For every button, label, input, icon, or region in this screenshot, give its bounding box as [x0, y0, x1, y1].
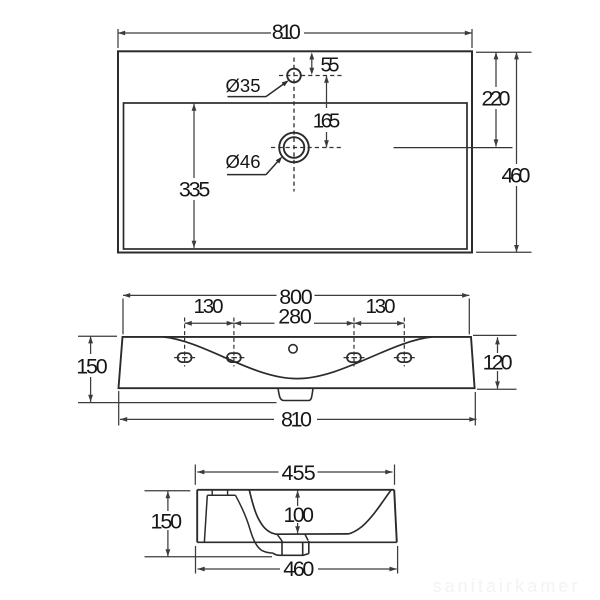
svg-text:455: 455 — [281, 461, 315, 485]
svg-text:130: 130 — [366, 295, 396, 318]
svg-text:120: 120 — [483, 350, 513, 374]
svg-text:150: 150 — [151, 509, 183, 533]
svg-text:150: 150 — [76, 354, 108, 378]
svg-text:280: 280 — [278, 305, 312, 329]
svg-text:810: 810 — [281, 407, 312, 431]
svg-text:55: 55 — [321, 55, 340, 77]
svg-text:335: 335 — [179, 178, 211, 202]
svg-text:130: 130 — [194, 295, 224, 318]
svg-text:460: 460 — [283, 557, 314, 581]
svg-text:165: 165 — [313, 110, 341, 133]
svg-text:Ø46: Ø46 — [226, 151, 261, 172]
svg-text:Ø35: Ø35 — [226, 75, 261, 96]
svg-text:220: 220 — [482, 87, 511, 111]
svg-text:460: 460 — [502, 164, 531, 188]
svg-text:810: 810 — [272, 20, 301, 44]
svg-text:100: 100 — [284, 504, 314, 527]
